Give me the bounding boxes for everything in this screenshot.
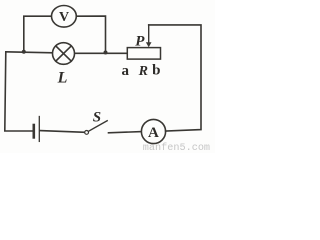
svg-text:L: L [57, 70, 68, 87]
svg-text:A: A [148, 125, 159, 141]
svg-text:a: a [122, 63, 130, 79]
svg-text:S: S [93, 110, 101, 126]
svg-text:V: V [59, 10, 69, 25]
svg-text:R: R [138, 64, 148, 79]
svg-text:manfen5.com: manfen5.com [143, 142, 210, 153]
svg-text:b: b [152, 63, 160, 79]
svg-text:P: P [135, 33, 145, 49]
